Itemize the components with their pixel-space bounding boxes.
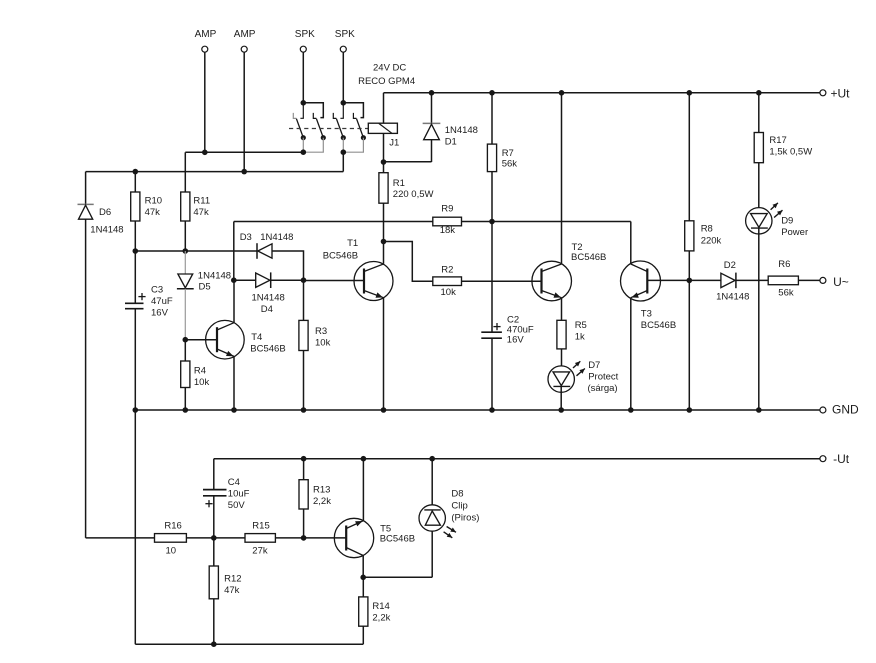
- wire T5 bottom lead: [362, 556, 364, 578]
- wire: [243, 52, 245, 171]
- wire D3 row: [135, 250, 257, 252]
- node T3 base junction: [687, 278, 693, 284]
- wire relay group1 top bracket: [303, 103, 323, 118]
- terminal -Ut: [820, 456, 826, 462]
- transistor T5: [334, 518, 373, 557]
- wire T5 to D8: [363, 576, 432, 578]
- node C4/R12 junction: [211, 535, 217, 541]
- resistor R15: [245, 534, 275, 543]
- svg-text:56k: 56k: [502, 159, 518, 170]
- node R13 top: [301, 456, 307, 462]
- node R10 top: [133, 169, 139, 175]
- svg-text:R9: R9: [441, 204, 453, 215]
- resistor R10: [134, 172, 136, 192]
- svg-text:1N4148: 1N4148: [445, 125, 478, 136]
- node AMP1 junction: [202, 150, 208, 156]
- svg-text:47k: 47k: [193, 207, 209, 218]
- svg-text:R3: R3: [315, 326, 327, 337]
- transistor T1: [354, 262, 393, 301]
- wire coil top: [383, 93, 385, 123]
- svg-text:+Ut: +Ut: [831, 87, 851, 101]
- svg-text:1N4148: 1N4148: [198, 271, 231, 282]
- diode D3: [256, 243, 258, 259]
- svg-text:1N4148: 1N4148: [90, 224, 123, 235]
- svg-text:47k: 47k: [224, 585, 240, 596]
- resistor R5: [557, 320, 566, 349]
- svg-text:SPK: SPK: [335, 29, 355, 40]
- node R13 bottom junction: [301, 535, 307, 541]
- svg-text:D2: D2: [724, 260, 736, 271]
- wire T3 collector: [630, 222, 632, 265]
- svg-text:R13: R13: [313, 485, 330, 496]
- node coil-R1-D1 junction: [381, 159, 387, 165]
- relay switch arm: [316, 119, 323, 138]
- resistor R4: [184, 340, 186, 361]
- relay fixed contact stub: [333, 113, 336, 119]
- svg-text:R17: R17: [769, 135, 786, 146]
- node D1 top: [429, 90, 435, 96]
- svg-text:C3: C3: [151, 284, 163, 295]
- svg-text:U~: U~: [833, 275, 849, 289]
- resistor R14: [362, 577, 364, 597]
- relay moving contact node: [301, 135, 306, 140]
- svg-text:D6: D6: [99, 207, 111, 218]
- relay moving contact node: [341, 135, 346, 140]
- terminal GND: [820, 407, 826, 413]
- resistor R11: [184, 152, 186, 192]
- svg-text:C4: C4: [228, 477, 240, 488]
- svg-text:1,5k 0,5W: 1,5k 0,5W: [769, 146, 812, 157]
- svg-text:T4: T4: [251, 332, 262, 343]
- svg-text:1N4148: 1N4148: [716, 291, 749, 302]
- transistor T2: [532, 261, 572, 301]
- wire R15 to T5 base: [275, 537, 346, 539]
- node R10 bottom junction: [133, 248, 139, 254]
- capacitor C2: [481, 331, 502, 333]
- svg-text:R1: R1: [393, 178, 405, 189]
- wire D4 row: [234, 279, 256, 281]
- wire AMP/R11 link row: [185, 151, 303, 153]
- svg-text:GND: GND: [832, 403, 859, 417]
- node R7 top: [489, 90, 495, 96]
- svg-text:10k: 10k: [441, 287, 457, 298]
- svg-text:10k: 10k: [315, 338, 331, 349]
- node AMP2 junction: [241, 169, 247, 175]
- relay fixed contact stub: [293, 113, 296, 119]
- node R12 bottom: [211, 641, 217, 647]
- svg-text:16V: 16V: [507, 334, 525, 345]
- resistor R12: [213, 538, 215, 566]
- svg-text:47k: 47k: [145, 207, 161, 218]
- wire left branch down: [86, 537, 155, 539]
- wire relay group2 common stub: [340, 103, 343, 119]
- relay contact group 1 common node: [301, 100, 307, 106]
- relay fixed contact stub: [313, 113, 316, 119]
- wire D4 out: [271, 279, 304, 281]
- resistor R1: [379, 173, 388, 204]
- wire T5 top lead: [362, 459, 364, 521]
- wire D3 branch vertical: [233, 222, 235, 281]
- svg-text:AMP: AMP: [195, 29, 217, 40]
- svg-text:AMP: AMP: [234, 29, 256, 40]
- terminal U~: [820, 277, 826, 283]
- svg-text:SPK: SPK: [295, 29, 315, 40]
- terminal SPK (right): [340, 46, 346, 52]
- svg-text:2,2k: 2,2k: [372, 612, 390, 623]
- svg-text:50V: 50V: [228, 500, 246, 511]
- wire group2 moving link: [342, 138, 344, 153]
- wire T1 collector to R2: [384, 242, 433, 282]
- svg-text:220k: 220k: [701, 235, 722, 246]
- relay contact group 2 common node: [341, 100, 347, 106]
- wire R5 to D7: [561, 349, 563, 366]
- diode D5: [184, 251, 186, 274]
- resistor R17: [758, 93, 760, 133]
- svg-text:R5: R5: [575, 320, 587, 331]
- svg-text:(sárga): (sárga): [588, 383, 618, 394]
- wire: [204, 52, 206, 152]
- wire bottom rail: [135, 643, 363, 645]
- relay coil J1: [368, 123, 397, 133]
- relay moving contact node: [361, 135, 366, 140]
- svg-text:R7: R7: [502, 148, 514, 159]
- svg-text:D5: D5: [199, 282, 211, 293]
- svg-text:R2: R2: [441, 264, 453, 275]
- resistor R7: [491, 93, 493, 144]
- wire T4 collector: [233, 280, 235, 323]
- wire R7 down: [491, 172, 493, 332]
- wire -Ut row: [214, 458, 820, 460]
- wire R2 to T2 base: [462, 280, 542, 282]
- svg-text:D9: D9: [781, 215, 793, 226]
- resistor R2: [433, 277, 462, 286]
- relay switch arm: [357, 119, 364, 138]
- wire R17 to D9: [758, 163, 760, 208]
- svg-text:D3: D3: [240, 232, 252, 243]
- wire T1 emitter: [383, 298, 385, 411]
- svg-text:18k: 18k: [440, 225, 456, 236]
- wire: [342, 52, 344, 103]
- node D5 top junction: [183, 248, 189, 254]
- wire R6 to U~ terminal: [798, 279, 820, 281]
- svg-text:R11: R11: [193, 196, 210, 207]
- wire D3 to corner: [272, 251, 304, 280]
- svg-text:47uF: 47uF: [151, 296, 173, 307]
- svg-text:24V DC: 24V DC: [373, 63, 406, 74]
- terminal SPK (left): [300, 46, 306, 52]
- svg-text:T1: T1: [347, 238, 358, 249]
- capacitor C3: [134, 251, 136, 303]
- LED D7: [548, 366, 574, 392]
- svg-text:D7: D7: [588, 360, 600, 371]
- wire relay group2 top bracket: [343, 103, 363, 118]
- svg-text:16V: 16V: [151, 307, 169, 318]
- wire T3 base: [647, 279, 689, 281]
- diode D6: [85, 172, 87, 538]
- svg-text:J1: J1: [389, 138, 399, 149]
- resistor R3: [303, 280, 305, 320]
- LED D9: [746, 208, 772, 234]
- svg-text:1N4148: 1N4148: [252, 292, 285, 303]
- svg-text:RECO GPM4: RECO GPM4: [358, 76, 415, 87]
- svg-text:T3: T3: [641, 309, 652, 320]
- svg-text:1N4148: 1N4148: [260, 232, 293, 243]
- GND rail junction nodes: [133, 407, 139, 413]
- wire lower AMP rail: [86, 171, 344, 173]
- svg-text:D4: D4: [261, 304, 273, 315]
- relay switch arm: [296, 119, 303, 138]
- svg-text:R4: R4: [194, 365, 206, 376]
- capacitor C4: [213, 459, 215, 490]
- svg-text:BC546B: BC546B: [250, 344, 285, 355]
- svg-text:R10: R10: [145, 196, 162, 207]
- svg-text:10: 10: [166, 546, 177, 557]
- diode D4: [256, 273, 270, 287]
- diode D1: [431, 93, 433, 124]
- wire +Ut rail: [384, 92, 820, 94]
- terminal AMP (right): [241, 46, 247, 52]
- svg-text:1k: 1k: [575, 332, 585, 343]
- resistor R13: [303, 459, 305, 480]
- LED D8: [419, 505, 445, 531]
- resistor R16: [155, 534, 187, 543]
- wire T1 base: [304, 280, 365, 282]
- svg-text:R16: R16: [164, 521, 181, 532]
- wire T2 emitter: [561, 298, 563, 321]
- wire D1 bottom link: [384, 161, 432, 163]
- relay moving contact node: [321, 135, 326, 140]
- wire R3 down: [303, 351, 305, 411]
- svg-text:BC546B: BC546B: [641, 320, 676, 331]
- wire GND rail: [135, 409, 820, 411]
- transistor T4: [185, 339, 217, 341]
- wire R16 to junction: [186, 537, 245, 539]
- relay fixed contact stub: [353, 113, 356, 119]
- node T1 collector junction: [381, 239, 387, 245]
- terminal AMP (left): [202, 46, 208, 52]
- wire: [302, 52, 304, 103]
- wire coil bottom: [383, 133, 385, 172]
- svg-text:10k: 10k: [194, 377, 210, 388]
- wire T4 emitter: [233, 356, 235, 410]
- wire group1 moving link: [302, 138, 304, 153]
- svg-text:(Piros): (Piros): [451, 512, 479, 523]
- svg-text:Protect: Protect: [588, 371, 618, 382]
- svg-text:R6: R6: [778, 259, 790, 270]
- wire relay group1 common stub: [300, 103, 303, 119]
- wire R9 row: [234, 221, 433, 223]
- resistor R9: [433, 217, 462, 226]
- svg-text:BC546B: BC546B: [380, 534, 415, 545]
- wire C3 line down to bottom rail: [134, 410, 136, 644]
- svg-text:56k: 56k: [778, 287, 794, 298]
- svg-text:220 0,5W: 220 0,5W: [393, 189, 434, 200]
- node T1 base junction: [301, 277, 307, 283]
- wire T2 collector: [561, 93, 563, 264]
- svg-text:27k: 27k: [252, 546, 268, 557]
- resistor R6: [768, 276, 798, 285]
- wire R1 to T1 collector: [383, 203, 385, 264]
- svg-text:Power: Power: [781, 227, 808, 238]
- svg-text:D8: D8: [451, 488, 463, 499]
- diode D2: [689, 279, 721, 281]
- relay switch arm: [336, 119, 343, 138]
- node D4 left: [231, 277, 237, 283]
- svg-text:2,2k: 2,2k: [313, 496, 331, 507]
- wire T3 emitter: [630, 298, 632, 411]
- relay actuator dashed link: [289, 128, 368, 130]
- svg-text:BC546B: BC546B: [571, 252, 606, 263]
- svg-text:-Ut: -Ut: [833, 452, 850, 466]
- svg-text:10uF: 10uF: [228, 489, 250, 500]
- svg-text:R8: R8: [701, 223, 713, 234]
- terminal +Ut: [820, 90, 826, 96]
- resistor R8: [688, 93, 690, 221]
- node R9 junction: [489, 219, 495, 225]
- svg-text:Clip: Clip: [451, 501, 467, 512]
- svg-text:R12: R12: [224, 574, 241, 585]
- svg-text:R14: R14: [372, 601, 389, 612]
- transistor T3: [621, 261, 661, 301]
- svg-text:R15: R15: [252, 521, 269, 532]
- svg-text:D1: D1: [445, 137, 457, 148]
- svg-text:BC546B: BC546B: [323, 250, 358, 261]
